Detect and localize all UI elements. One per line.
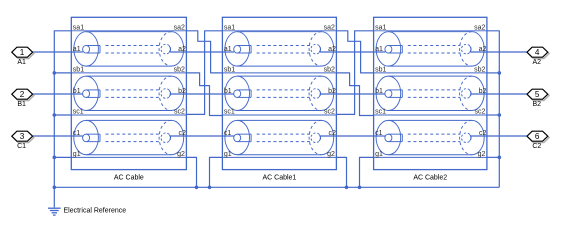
svg-text:a1: a1 bbox=[224, 46, 232, 53]
svg-text:g1: g1 bbox=[73, 151, 81, 158]
svg-text:c1: c1 bbox=[375, 130, 383, 137]
svg-text:sc1: sc1 bbox=[375, 109, 386, 116]
svg-text:b2: b2 bbox=[328, 88, 336, 95]
svg-text:g2: g2 bbox=[478, 151, 486, 158]
svg-text:a1: a1 bbox=[73, 46, 81, 53]
svg-text:sa2: sa2 bbox=[174, 25, 185, 32]
svg-text:C2: C2 bbox=[532, 143, 541, 150]
svg-text:sb1: sb1 bbox=[375, 67, 386, 74]
svg-text:g1: g1 bbox=[375, 151, 383, 158]
svg-text:a1: a1 bbox=[375, 46, 383, 53]
svg-text:A2: A2 bbox=[533, 59, 542, 66]
svg-text:sa2: sa2 bbox=[474, 25, 485, 32]
svg-text:g2: g2 bbox=[177, 151, 185, 158]
svg-text:c1: c1 bbox=[73, 130, 81, 137]
svg-text:sa1: sa1 bbox=[73, 25, 84, 32]
svg-text:c2: c2 bbox=[178, 130, 186, 137]
svg-text:b2: b2 bbox=[178, 88, 186, 95]
svg-text:B1: B1 bbox=[17, 101, 26, 108]
svg-text:c1: c1 bbox=[224, 130, 232, 137]
svg-text:a2: a2 bbox=[178, 46, 186, 53]
svg-text:C1: C1 bbox=[17, 143, 26, 150]
svg-text:g2: g2 bbox=[327, 151, 335, 158]
svg-text:1: 1 bbox=[20, 48, 25, 57]
svg-text:sc2: sc2 bbox=[474, 109, 485, 116]
svg-text:AC Cable1: AC Cable1 bbox=[262, 175, 296, 182]
svg-text:b2: b2 bbox=[479, 88, 487, 95]
svg-text:4: 4 bbox=[535, 48, 540, 57]
svg-text:A1: A1 bbox=[17, 59, 26, 66]
svg-text:sc1: sc1 bbox=[224, 109, 235, 116]
svg-text:g1: g1 bbox=[224, 151, 232, 158]
svg-text:sb1: sb1 bbox=[73, 67, 84, 74]
svg-text:sa2: sa2 bbox=[324, 25, 335, 32]
svg-text:sa1: sa1 bbox=[224, 25, 235, 32]
svg-text:B2: B2 bbox=[533, 101, 542, 108]
svg-text:AC Cable2: AC Cable2 bbox=[413, 175, 447, 182]
svg-text:AC Cable: AC Cable bbox=[114, 175, 144, 182]
svg-text:b1: b1 bbox=[224, 88, 232, 95]
svg-text:sa1: sa1 bbox=[375, 25, 386, 32]
svg-text:Electrical Reference: Electrical Reference bbox=[64, 207, 127, 214]
svg-text:sb2: sb2 bbox=[324, 67, 335, 74]
svg-text:sc2: sc2 bbox=[174, 109, 185, 116]
svg-text:c2: c2 bbox=[328, 130, 336, 137]
svg-text:3: 3 bbox=[20, 132, 25, 141]
svg-text:a2: a2 bbox=[328, 46, 336, 53]
svg-text:sb2: sb2 bbox=[474, 67, 485, 74]
svg-text:sb1: sb1 bbox=[224, 67, 235, 74]
svg-text:6: 6 bbox=[535, 132, 540, 141]
svg-text:sc1: sc1 bbox=[73, 109, 84, 116]
svg-text:2: 2 bbox=[20, 90, 25, 99]
svg-text:b1: b1 bbox=[375, 88, 383, 95]
svg-text:sb2: sb2 bbox=[174, 67, 185, 74]
svg-text:5: 5 bbox=[535, 90, 540, 99]
svg-text:sc2: sc2 bbox=[324, 109, 335, 116]
svg-text:c2: c2 bbox=[479, 130, 487, 137]
svg-text:a2: a2 bbox=[479, 46, 487, 53]
svg-text:b1: b1 bbox=[73, 88, 81, 95]
